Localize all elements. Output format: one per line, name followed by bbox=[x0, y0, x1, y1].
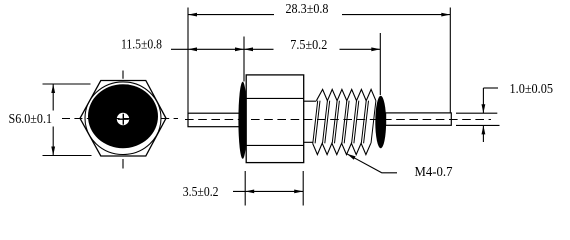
extension line left lead end bbox=[187, 8, 189, 114]
3.5 right extension line bbox=[302, 171, 304, 206]
side view centerline bbox=[185, 119, 491, 121]
S6.0 bottom extension line bbox=[43, 155, 92, 157]
hex front vertical centerline bbox=[122, 71, 124, 169]
svg-text:M4-0.7: M4-0.7 bbox=[415, 164, 453, 179]
S6.0 top extension line bbox=[43, 83, 91, 85]
thread crest zigzag bottom bbox=[313, 143, 371, 154]
extension line right lead end bbox=[449, 8, 451, 113]
dim 28.3 right arrow bbox=[441, 13, 450, 17]
right lead wire bbox=[386, 113, 452, 125]
hex head side view body bbox=[246, 75, 304, 163]
3.5 right arrow bbox=[294, 190, 303, 194]
dim 28.3 left arrow bbox=[188, 13, 197, 17]
extension line hex face bbox=[243, 37, 245, 82]
svg-text:1.0±0.05: 1.0±0.05 bbox=[510, 81, 554, 96]
dim 7.5 right arrow bbox=[371, 47, 380, 51]
1.0 dimension vertical line bbox=[482, 88, 484, 142]
3.5 dimension line bbox=[233, 190, 303, 192]
svg-text:28.3±0.8: 28.3±0.8 bbox=[286, 1, 329, 16]
hex side face lines bbox=[246, 98, 304, 145]
1.0 wire top extension line bbox=[456, 112, 497, 114]
hex head side: black chamfer crescent bbox=[238, 82, 247, 159]
hex head front view: chamfer circle bbox=[85, 82, 161, 155]
svg-text:3.5±0.2: 3.5±0.2 bbox=[183, 184, 219, 199]
hex front horizontal centerline bbox=[62, 118, 178, 120]
dimension 7.5 line bbox=[244, 48, 380, 50]
dim 7.5 left arrow bbox=[244, 47, 253, 51]
hex head front view: hexagon outline bbox=[80, 81, 166, 157]
M4-0.7 leader arrowhead bbox=[347, 154, 356, 160]
neck between hex and thread bbox=[304, 101, 317, 142]
left lead wire bbox=[188, 113, 241, 127]
dimension 11.5 line bbox=[171, 48, 244, 50]
thread body fill bbox=[313, 89, 376, 154]
1.0 down arrow bbox=[482, 104, 486, 113]
svg-text:11.5±0.8: 11.5±0.8 bbox=[121, 36, 162, 51]
dim 11.5 left arrow bbox=[188, 47, 197, 51]
1.0 wire bottom extension line bbox=[456, 124, 500, 126]
thread flank lines bbox=[313, 101, 376, 144]
1.0 up arrow bbox=[482, 125, 486, 134]
right end dome bbox=[375, 96, 386, 149]
dim 11.5 right arrow bbox=[235, 47, 244, 51]
hex head front view: black face disc bbox=[88, 84, 158, 148]
svg-text:7.5±0.2: 7.5±0.2 bbox=[290, 37, 327, 52]
3.5 left arrow bbox=[245, 190, 254, 194]
thread crest zigzag top bbox=[316, 89, 376, 100]
3.5 left extension line bbox=[244, 171, 246, 206]
S6.0 up arrow bbox=[51, 84, 55, 93]
extension line thread end bbox=[379, 33, 381, 95]
M4-0.7 leader line bbox=[347, 154, 397, 173]
S6.0 down arrow bbox=[51, 147, 55, 156]
hex head front view: center hole bbox=[117, 113, 129, 125]
S6.0 dimension line bbox=[52, 84, 54, 156]
svg-text:S6.0±0.1: S6.0±0.1 bbox=[9, 111, 53, 126]
hex head front view: center mark cross bbox=[118, 114, 129, 125]
1.0 leader corner bbox=[483, 87, 498, 89]
dimension 28.3 line bbox=[188, 14, 450, 16]
